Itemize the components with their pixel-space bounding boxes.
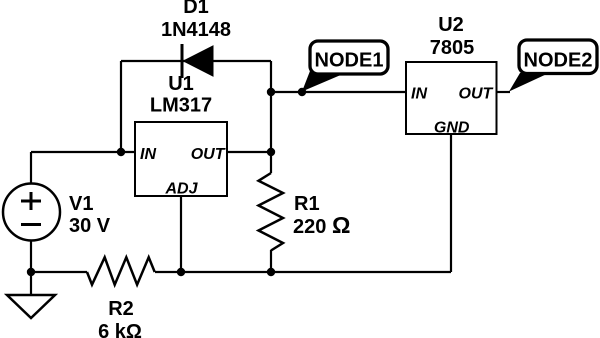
svg-text:GND: GND <box>434 120 470 137</box>
svg-text:NODE1: NODE1 <box>315 50 384 72</box>
svg-text:U2: U2 <box>438 14 464 36</box>
junction at NODE1 corner <box>267 88 275 96</box>
voltage source V1 <box>3 184 111 241</box>
wire IN net horizontal <box>31 151 135 153</box>
svg-text:NODE2: NODE2 <box>524 50 593 72</box>
wire left vertical drop to IN net <box>120 61 122 152</box>
svg-text:R2: R2 <box>108 298 134 320</box>
resistor R1 <box>259 173 351 251</box>
wire right vertical (top corner down to R1 top) <box>270 61 272 173</box>
svg-text:D1: D1 <box>183 0 209 18</box>
wire NODE1 net horizontal to U2 IN <box>271 91 406 93</box>
svg-text:OUT: OUT <box>459 86 494 103</box>
wire V1 bottom stub <box>30 241 32 272</box>
wire V1 top stub <box>30 152 32 183</box>
svg-text:IN: IN <box>411 86 427 103</box>
svg-text:U1: U1 <box>168 73 194 95</box>
svg-text:R1: R1 <box>294 193 320 215</box>
svg-text:30 V: 30 V <box>69 215 111 237</box>
op-amp U1 LM317 regulator box <box>135 73 227 198</box>
node NODE2 callout <box>509 40 597 92</box>
svg-text:V1: V1 <box>69 193 93 215</box>
op-amp U2 7805 regulator box <box>406 14 497 137</box>
svg-text:ADJ: ADJ <box>164 181 198 198</box>
diode D1 <box>161 0 231 78</box>
svg-text:1N4148: 1N4148 <box>161 19 231 41</box>
node NODE1 callout <box>302 41 388 92</box>
ground <box>7 295 55 318</box>
svg-text:OUT: OUT <box>191 146 226 163</box>
wire U2 GND vertical <box>450 134 452 272</box>
svg-text:220 Ω: 220 Ω <box>293 212 350 238</box>
svg-text:7805: 7805 <box>430 37 475 59</box>
junction at NODE1 anchor <box>298 88 306 96</box>
wire top horizontal (diode net) <box>121 60 271 62</box>
wire ADJ vertical <box>180 196 182 272</box>
svg-text:6 kΩ: 6 kΩ <box>98 321 142 338</box>
svg-text:IN: IN <box>140 146 156 163</box>
svg-text:LM317: LM317 <box>150 95 212 117</box>
wire R1 bottom stub <box>270 250 272 272</box>
resistor R2 <box>87 257 155 338</box>
wire ground stub <box>30 272 32 295</box>
junction at OUT net <box>267 148 275 156</box>
junction at ADJ / bottom net <box>177 268 185 276</box>
wire OUT net horizontal <box>227 151 271 153</box>
junction at V1 bottom / ground <box>27 268 35 276</box>
wire bottom right from R2 to U2 GND <box>155 271 451 273</box>
wire bottom left to R2 <box>31 271 87 273</box>
junction at IN net and left drop <box>117 148 125 156</box>
wire U2 OUT stub <box>496 91 510 93</box>
junction at R1 bottom / bottom net <box>267 268 275 276</box>
